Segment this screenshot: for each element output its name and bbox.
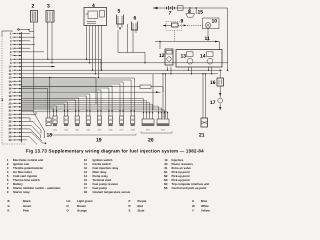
svg-text:13: 13 (9, 77, 12, 80)
wire pin stubs (top rows) (22, 34, 45, 52)
svg-text:12: 12 (9, 73, 12, 76)
svg-text:23: 23 (9, 113, 12, 116)
wire air flow meter leads (86, 26, 102, 79)
svg-text:18: 18 (84, 190, 88, 194)
coolant temperature sensor 18 (22, 77, 53, 139)
svg-text:16: 16 (210, 80, 216, 86)
main relay 13 and pump relay 14 block (176, 50, 222, 68)
svg-text:B: B (8, 199, 10, 203)
svg-text:21: 21 (9, 106, 12, 109)
svg-text:Starter relay: Starter relay (13, 190, 30, 194)
svg-text:19: 19 (96, 138, 102, 144)
power resistors 20 (141, 114, 172, 144)
svg-text:18: 18 (47, 133, 53, 139)
svg-text:Slate: Slate (138, 209, 145, 213)
svg-text:20: 20 (148, 138, 154, 144)
svg-text:4: 4 (92, 3, 95, 9)
svg-text:3: 3 (47, 4, 50, 10)
wire loop left (152, 74, 154, 110)
wire row to mid drop (22, 78, 97, 105)
svg-text:11: 11 (205, 36, 211, 42)
ignition switch 10 (188, 18, 220, 42)
wire long row with arrow to resistor feed (22, 91, 161, 93)
svg-text:NO8: NO8 (131, 129, 135, 132)
starter relay 9 (163, 18, 188, 41)
svg-text:N: N (67, 204, 69, 208)
wire arrowheads into injectors (53, 110, 136, 112)
injectors 19 (52, 113, 136, 144)
svg-text:30: 30 (9, 139, 12, 142)
svg-text:Y: Y (192, 209, 194, 213)
wire relay bus row C (22, 73, 219, 75)
svg-text:27: 27 (9, 128, 12, 131)
wire row with ballast resistor (22, 86, 141, 88)
svg-text:22: 22 (9, 110, 12, 113)
svg-text:18: 18 (9, 95, 12, 98)
air flow meter 4 (84, 3, 107, 26)
svg-text:25: 25 (9, 121, 12, 124)
wire nest to injectors (22, 78, 135, 113)
svg-text:Purple: Purple (138, 199, 147, 203)
svg-text:NO4: NO4 (86, 129, 90, 132)
svg-text:15: 15 (198, 10, 204, 16)
svg-text:20: 20 (9, 102, 12, 105)
svg-text:NO1: NO1 (53, 129, 57, 132)
svg-text:R: R (129, 204, 131, 208)
svg-text:24: 24 (9, 117, 12, 120)
svg-text:Green: Green (23, 204, 31, 208)
fuel pump 17 (210, 86, 223, 110)
svg-text:14: 14 (200, 54, 206, 60)
svg-text:9: 9 (181, 18, 184, 24)
svg-text:8: 8 (188, 9, 191, 15)
colour code legend (8, 199, 211, 213)
wire feed to power resistors (162, 73, 166, 118)
svg-text:21: 21 (199, 133, 205, 139)
svg-text:19: 19 (9, 99, 12, 102)
wire short row arrow (22, 66, 56, 68)
svg-text:NO2: NO2 (64, 129, 68, 132)
svg-text:Orange: Orange (77, 209, 87, 213)
wire ignition feed 11 (155, 36, 220, 50)
svg-text:Coolant temperature sensor: Coolant temperature sensor (93, 190, 132, 194)
svg-text:2: 2 (32, 4, 35, 10)
battery 7 (167, 6, 184, 17)
svg-text:26: 26 (9, 124, 12, 127)
throttle potentiometer 3 (46, 4, 54, 64)
wire lower pins bend down (22, 111, 47, 145)
ignition coil 2 (17, 4, 38, 114)
extra air valve 21 (199, 73, 208, 138)
svg-text:5: 5 (118, 9, 121, 15)
svg-text:13: 13 (181, 54, 187, 60)
svg-text:NO7: NO7 (120, 129, 124, 132)
svg-text:W: W (192, 204, 195, 208)
svg-text:U: U (192, 199, 194, 203)
resistor inline (ballast feed) (140, 85, 151, 88)
svg-text:10: 10 (212, 18, 218, 24)
ECU pin numbers and ticks (9, 33, 22, 142)
svg-text:29: 29 (9, 135, 12, 138)
svg-text:Pink: Pink (23, 209, 29, 213)
svg-text:Black: Black (23, 199, 31, 203)
svg-text:Yellow: Yellow (201, 209, 211, 213)
wire diagonal from coil line (34, 113, 45, 138)
svg-text:NO6: NO6 (109, 129, 113, 132)
wire long bus row B (22, 69, 223, 71)
wire long bus row A (22, 62, 229, 64)
svg-text:28: 28 (9, 132, 12, 135)
svg-text:P: P (129, 199, 131, 203)
wire row to coil feed (22, 59, 102, 70)
svg-text:16: 16 (9, 88, 12, 91)
svg-text:N5: N5 (164, 186, 168, 190)
svg-text:17: 17 (9, 91, 12, 94)
terminal stud 15 (196, 7, 204, 15)
fuel pump resistor 16 (210, 70, 224, 87)
svg-text:Brown: Brown (77, 204, 86, 208)
svg-text:NO5: NO5 (97, 129, 101, 132)
svg-text:15: 15 (9, 84, 12, 87)
wire main feed (top right) (153, 7, 228, 71)
svg-text:7: 7 (169, 11, 172, 17)
svg-text:Red: Red (138, 204, 144, 208)
legend text (7, 158, 209, 194)
cold start injector 5 (117, 9, 124, 53)
svg-text:White: White (201, 204, 209, 208)
wire relay drops (167, 67, 212, 75)
svg-text:Blue: Blue (201, 199, 208, 203)
svg-text:10: 10 (9, 66, 12, 69)
svg-text:17: 17 (210, 100, 216, 106)
electronic control unit 1 (dashed box) (2, 31, 26, 144)
svg-text:12: 12 (159, 53, 165, 59)
svg-text:NO3: NO3 (75, 129, 79, 132)
svg-text:S: S (129, 209, 131, 213)
svg-text:Light green: Light green (77, 199, 93, 203)
svg-text:Control unit pick-up point: Control unit pick-up point (172, 186, 207, 190)
svg-text:14: 14 (9, 80, 12, 83)
svg-text:6: 6 (134, 16, 137, 22)
thermo time switch 6 (118, 16, 146, 64)
starter inhibitor switch 8 (186, 7, 195, 17)
fuel injection relay 12 (159, 49, 173, 65)
svg-text:Fig 13.73 Supplementary wiring: Fig 13.73 Supplementary wiring diagram f… (26, 149, 204, 154)
wire band to resistor bank (22, 99, 169, 115)
